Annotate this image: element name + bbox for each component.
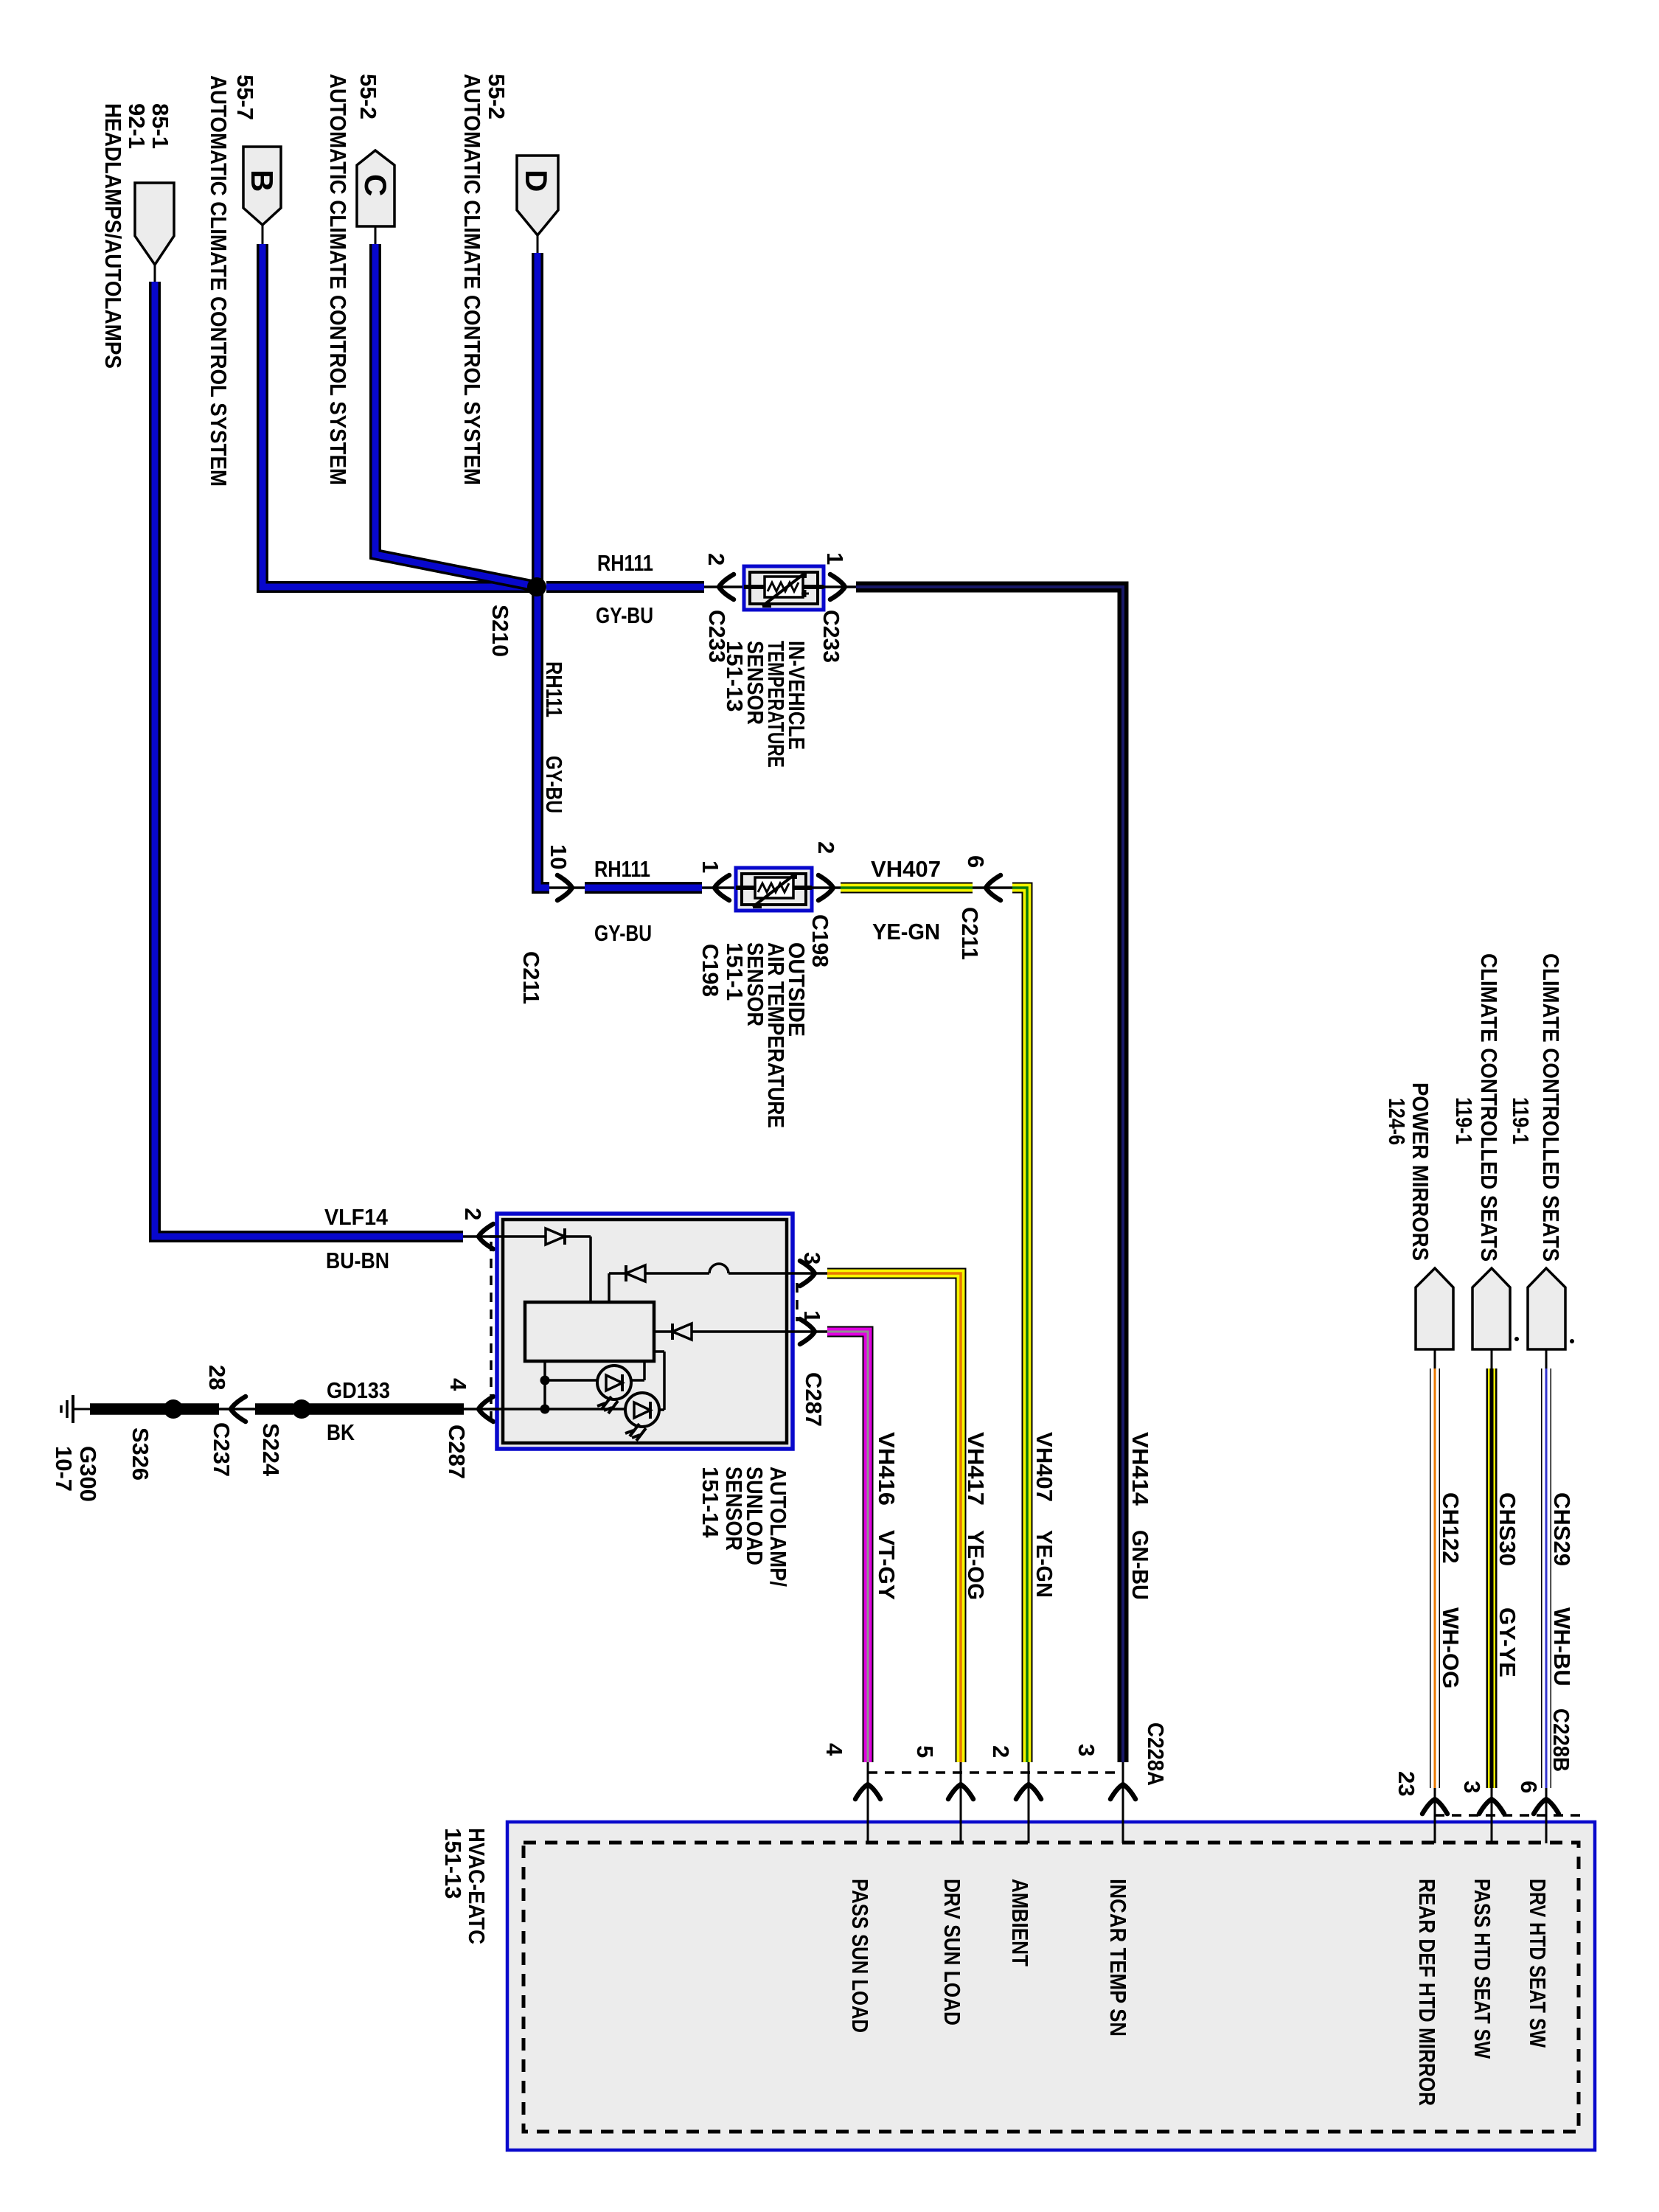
- svg-text:C211: C211: [957, 907, 983, 960]
- svg-text:151-14: 151-14: [698, 1467, 723, 1538]
- svg-text:2: 2: [460, 1208, 486, 1220]
- svg-text:85-1: 85-1: [147, 103, 173, 149]
- connector C228A pin 5 arrow: [912, 1745, 973, 1799]
- svg-text:C198: C198: [698, 944, 723, 997]
- sunload internal wiring LEDs and pin 4 branch: [490, 1352, 664, 1414]
- ground G300 symbol: [51, 1395, 101, 1502]
- svg-text:AMBIENT: AMBIENT: [1007, 1879, 1033, 1966]
- svg-text:28: 28: [204, 1365, 230, 1390]
- wire VH407 YE-GN (outside sensor to C211 pin 6): [841, 856, 973, 945]
- svg-text:5: 5: [912, 1745, 938, 1758]
- svg-text:YE-GN: YE-GN: [872, 919, 940, 945]
- svg-text:BK: BK: [327, 1419, 355, 1445]
- svg-text:3: 3: [799, 1252, 825, 1265]
- svg-text:VH407: VH407: [1032, 1432, 1057, 1502]
- sunload internal wiring pin 2 branch: [490, 1228, 591, 1302]
- svg-text:WH-OG: WH-OG: [1438, 1607, 1464, 1688]
- svg-text:2: 2: [988, 1745, 1014, 1758]
- svg-text:92-1: 92-1: [124, 103, 150, 149]
- svg-text:C233: C233: [818, 610, 844, 663]
- svg-text:CHS30: CHS30: [1495, 1492, 1520, 1566]
- svg-text:23: 23: [1394, 1771, 1419, 1796]
- wire CHS30 GY-YE (climate seats to HVAC-EATC pin 3): [1492, 1349, 1520, 1788]
- HVAC-EATC pin function labels: [847, 1879, 1551, 2106]
- splice S224: [258, 1399, 311, 1477]
- svg-text:VT-GY: VT-GY: [874, 1530, 900, 1600]
- svg-text:C287: C287: [444, 1425, 470, 1479]
- svg-text:C: C: [358, 174, 393, 196]
- svg-text:DRV HTD SEAT SW: DRV HTD SEAT SW: [1525, 1879, 1551, 2048]
- svg-text:GY-BU: GY-BU: [594, 920, 652, 946]
- svg-text:GY-BU: GY-BU: [541, 756, 567, 813]
- sunload internal circuit block: [525, 1302, 654, 1361]
- connector C233 pin 1 arrow: [818, 552, 859, 663]
- connector C (off-page): [325, 74, 394, 485]
- HVAC-EATC module box: [440, 1822, 1595, 2150]
- svg-text:CLIMATE CONTROLLED SEATS: CLIMATE CONTROLLED SEATS: [1538, 953, 1564, 1262]
- thermistor symbol: [765, 577, 803, 597]
- svg-text:GY-BU: GY-BU: [596, 602, 653, 628]
- svg-text:S326: S326: [128, 1427, 153, 1481]
- wire stub C: [375, 226, 377, 246]
- connector C228A pin 2 arrow: [988, 1745, 1041, 1799]
- connector C287 pin 4 arrow: [444, 1378, 493, 1479]
- svg-text:6: 6: [1516, 1781, 1542, 1793]
- connector C211 pin 6 arrow: [957, 855, 1027, 960]
- svg-text:151-13: 151-13: [440, 1828, 466, 1899]
- svg-text:RH111: RH111: [594, 856, 650, 882]
- svg-text:GD133: GD133: [327, 1377, 390, 1403]
- svg-text:REAR DEF HTD MIRROR: REAR DEF HTD MIRROR: [1414, 1879, 1440, 2106]
- wire RH111 GY-BU from C211 corner to outside air temperature sensor: [549, 856, 736, 946]
- svg-text:WH-BU: WH-BU: [1549, 1607, 1575, 1686]
- svg-text:BU-BN: BU-BN: [326, 1248, 389, 1273]
- svg-text:10-7: 10-7: [51, 1446, 77, 1492]
- svg-text:AUTOLAMP/: AUTOLAMP/: [765, 1467, 791, 1587]
- wire RH111 GY-BU from B to S210: [262, 244, 532, 587]
- svg-text:S224: S224: [258, 1423, 284, 1477]
- svg-text:1: 1: [799, 1310, 825, 1323]
- photodiode LED1: [597, 1366, 631, 1413]
- pin stems into HVAC-EATC (left group): [868, 1762, 1123, 1843]
- svg-text:AUTOMATIC CLIMATE CONTROL SYST: AUTOMATIC CLIMATE CONTROL SYSTEM: [459, 74, 485, 485]
- wire (C237 to S224): [255, 1403, 293, 1415]
- connector POWER MIRRORS (off-page): [1384, 1082, 1453, 1349]
- svg-text:CHS29: CHS29: [1549, 1492, 1575, 1566]
- outside air temperature sensor box: [722, 868, 812, 1128]
- wire CHS29 WH-BU (climate seats to HVAC-EATC pin 6): [1546, 1349, 1575, 1788]
- svg-text:YE-OG: YE-OG: [963, 1530, 989, 1600]
- thermistor symbol: [755, 877, 793, 898]
- connector CLIMATE CONTROLLED SEATS (middle, off-page): [1451, 953, 1510, 1349]
- wire VH416 VT-GY (sunload pin 1 to HVAC-EATC pin 4): [788, 1332, 900, 1762]
- connector B (off-page): [206, 74, 281, 487]
- svg-text:AUTOMATIC CLIMATE CONTROL SYST: AUTOMATIC CLIMATE CONTROL SYSTEM: [206, 75, 232, 487]
- svg-text:VH416: VH416: [874, 1432, 900, 1506]
- svg-text:POWER MIRRORS: POWER MIRRORS: [1408, 1082, 1433, 1261]
- connector C237 pin 28 arrow: [204, 1365, 246, 1477]
- svg-text:YE-GN: YE-GN: [1032, 1530, 1057, 1598]
- wire CH122 WH-OG (power mirrors to HVAC-EATC pin 23): [1435, 1349, 1464, 1788]
- decorative dots near connectors: [1514, 1337, 1519, 1341]
- wire RH111 GY-BU from S210 to in-vehicle temperature sensor: [546, 550, 744, 628]
- wire VH414 GN-BU (in-vehicle sensor to HVAC-EATC pin 3): [856, 587, 1153, 1762]
- svg-text:G300: G300: [75, 1446, 101, 1502]
- in-vehicle temperature sensor box: [722, 566, 824, 768]
- connector C287 pin 1 arrow (sunload right): [799, 1310, 827, 1427]
- svg-text:C228B: C228B: [1548, 1708, 1574, 1772]
- svg-text:D: D: [519, 170, 554, 192]
- connector C287 dashed boundary (right side): [796, 1283, 799, 1321]
- pin stems into HVAC-EATC (right group): [1435, 1788, 1546, 1843]
- splice S210: [487, 577, 546, 657]
- svg-text:GY-YE: GY-YE: [1495, 1607, 1520, 1677]
- svg-text:C237: C237: [209, 1422, 234, 1477]
- connector C198 pin 2 arrow: [807, 841, 841, 967]
- svg-text:151-1: 151-1: [722, 942, 748, 1001]
- svg-text:119-1: 119-1: [1508, 1097, 1534, 1144]
- svg-text:119-1: 119-1: [1451, 1097, 1477, 1144]
- connector CLIMATE CONTROLLED SEATS (right, off-page): [1508, 953, 1565, 1349]
- svg-text:55-7: 55-7: [232, 74, 258, 120]
- svg-text:PASS HTD SEAT SW: PASS HTD SEAT SW: [1470, 1879, 1495, 2059]
- svg-text:RH111: RH111: [597, 550, 653, 576]
- connector C228A pin 3 arrow: [1074, 1722, 1169, 1799]
- svg-text:4: 4: [445, 1378, 471, 1391]
- svg-text:AUTOMATIC CLIMATE CONTROL SYST: AUTOMATIC CLIMATE CONTROL SYSTEM: [325, 74, 351, 485]
- connector C228B pin 23 arrow: [1394, 1771, 1447, 1814]
- wire GD133 BK (S224 to sunload sensor pin 4): [309, 1377, 502, 1445]
- wire VLF14 BU-BN (headlamps to sunload sensor pin 2): [155, 282, 502, 1273]
- svg-text:55-2: 55-2: [484, 74, 509, 119]
- svg-text:B: B: [245, 170, 279, 192]
- svg-text:10: 10: [546, 844, 571, 869]
- svg-text:1: 1: [822, 552, 848, 565]
- svg-text:GN-BU: GN-BU: [1127, 1530, 1153, 1600]
- sunload internal wiring pin 3 branch with hop: [609, 1264, 788, 1302]
- wire VH417 YE-OG (sunload pin 3 to HVAC-EATC pin 5): [788, 1273, 989, 1762]
- svg-text:6: 6: [963, 855, 989, 868]
- connector HEADLAMPS/AUTOLAMPS (off-page): [100, 103, 174, 369]
- svg-text:SENSOR: SENSOR: [721, 1467, 747, 1551]
- svg-text:2: 2: [813, 841, 839, 854]
- wire stub B: [262, 225, 264, 246]
- svg-text:CLIMATE CONTROLLED SEATS: CLIMATE CONTROLLED SEATS: [1476, 953, 1502, 1262]
- wire stub D: [537, 235, 539, 254]
- connector C287 pin 2 arrow (sunload): [460, 1208, 493, 1249]
- svg-text:124-6: 124-6: [1384, 1098, 1410, 1145]
- wire (S326 to C237): [181, 1403, 255, 1415]
- svg-text:3: 3: [1074, 1744, 1099, 1756]
- connector C228B dashed boundary: [1435, 1814, 1582, 1817]
- svg-text:151-13: 151-13: [722, 641, 748, 712]
- svg-text:S210: S210: [487, 605, 513, 657]
- svg-text:VH414: VH414: [1127, 1432, 1153, 1506]
- svg-text:C211: C211: [518, 951, 544, 1004]
- svg-text:HVAC-EATC: HVAC-EATC: [464, 1828, 490, 1944]
- wire (ground lead to S326): [90, 1403, 166, 1415]
- connector C287 pin 3 arrow (sunload right): [799, 1252, 825, 1286]
- sunload internal wiring pin 1 branch: [654, 1324, 788, 1340]
- connector C211 pin 10 arrow: [518, 844, 572, 1004]
- svg-text:C198: C198: [807, 914, 833, 967]
- svg-text:3: 3: [1459, 1781, 1485, 1793]
- svg-text:C287: C287: [801, 1372, 827, 1427]
- connector C287 dashed boundary line: [490, 1242, 493, 1425]
- photodiode LED2: [625, 1393, 659, 1441]
- svg-text:C228A: C228A: [1143, 1722, 1169, 1786]
- splice S326: [128, 1399, 183, 1481]
- svg-text:VH417: VH417: [963, 1432, 989, 1506]
- svg-text:DRV SUN LOAD: DRV SUN LOAD: [939, 1879, 965, 2025]
- wire VH407 YE-GN (C211 to HVAC-EATC pin 2): [1012, 888, 1057, 1762]
- autolamp/sunload sensor box: [497, 1214, 793, 1587]
- svg-text:HEADLAMPS/AUTOLAMPS: HEADLAMPS/AUTOLAMPS: [100, 103, 126, 369]
- wire stub headlamps: [154, 263, 156, 283]
- connector C233 pin 2 arrow: [703, 553, 734, 663]
- wire RH111 GY-BU from C to S210 (diagonal): [375, 244, 535, 586]
- svg-text:VLF14: VLF14: [324, 1204, 389, 1230]
- connector C198 pin 1 arrow: [698, 860, 729, 997]
- connector C228A pin 4 arrow: [821, 1743, 880, 1799]
- svg-text:RH111: RH111: [541, 661, 567, 717]
- svg-text:CH122: CH122: [1438, 1492, 1464, 1564]
- svg-text:2: 2: [703, 553, 729, 566]
- connector C228A dashed boundary: [868, 1771, 1123, 1774]
- svg-text:4: 4: [821, 1743, 847, 1756]
- svg-text:55-2: 55-2: [355, 74, 381, 119]
- connector C228B pin 6 arrow: [1516, 1708, 1574, 1814]
- connector D (off-page): [459, 74, 558, 485]
- svg-text:INCAR TEMP SN: INCAR TEMP SN: [1105, 1879, 1131, 2037]
- svg-text:1: 1: [698, 860, 723, 873]
- wire RH111 GY-BU from D through S210 down to C211 corner: [538, 253, 567, 888]
- svg-text:PASS SUN LOAD: PASS SUN LOAD: [847, 1879, 873, 2033]
- connector C228B pin 3 arrow: [1459, 1781, 1504, 1814]
- svg-text:VH407: VH407: [871, 856, 941, 882]
